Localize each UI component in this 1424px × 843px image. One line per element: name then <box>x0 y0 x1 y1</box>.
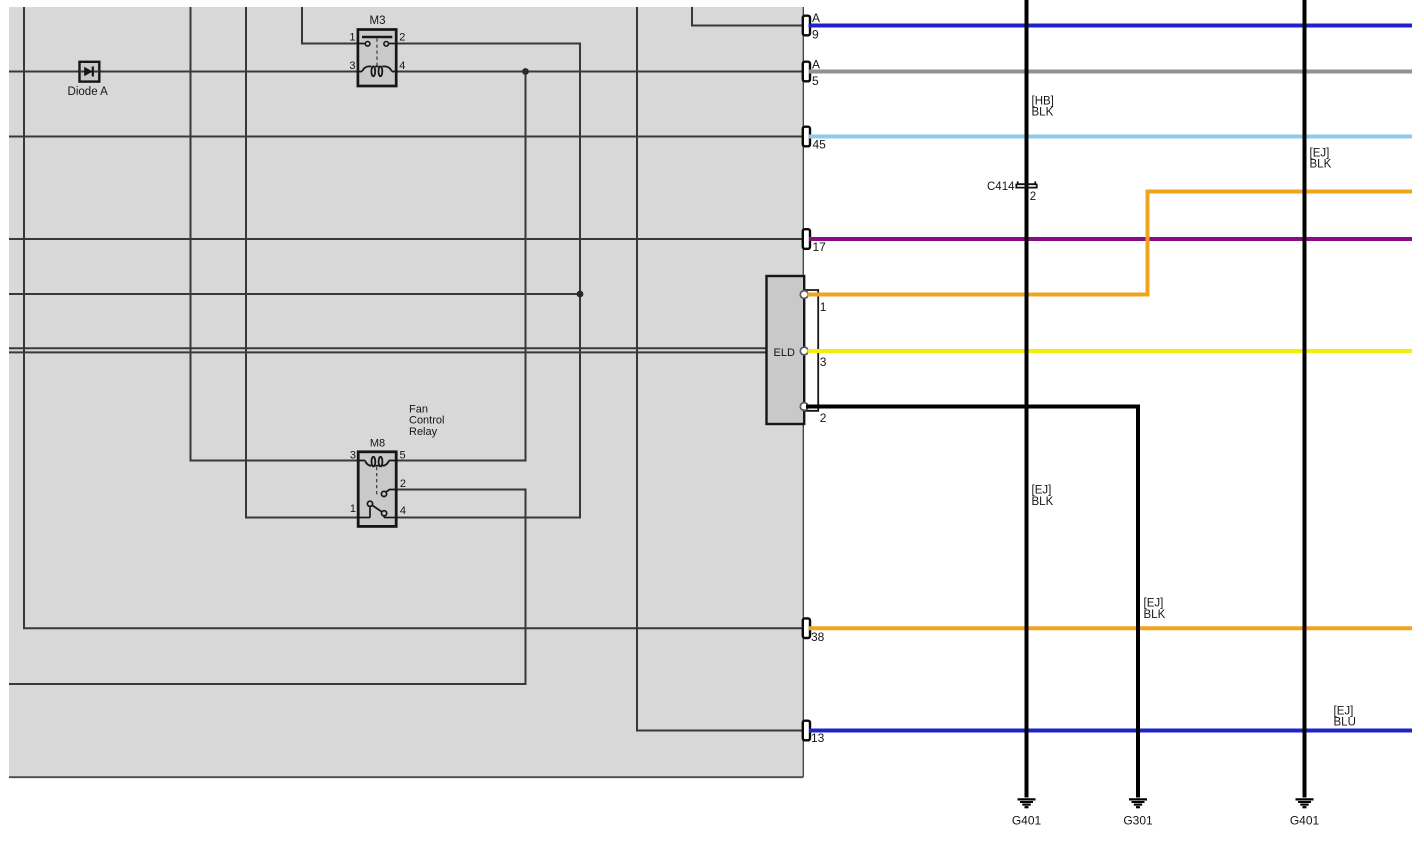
pin 13 label <box>811 731 825 745</box>
diode A box <box>80 62 100 82</box>
junction dot at x525 y71 <box>522 68 529 75</box>
light blue wire pin 45 <box>809 135 1412 139</box>
svg-text:Fan: Fan <box>409 403 428 415</box>
wire vertical bus x24 <box>23 7 25 628</box>
yellow wire ELD pin 3 <box>808 349 1413 353</box>
relay M3 contact circles <box>358 42 396 47</box>
svg-text:ELD: ELD <box>774 347 795 359</box>
svg-text:4: 4 <box>400 505 406 517</box>
relay M8 switch <box>358 490 396 518</box>
svg-text:Relay: Relay <box>409 426 438 438</box>
black wire [EJ] BLK vertical to G401 right <box>1303 0 1307 798</box>
relay M3 dashed link <box>376 39 378 66</box>
wire vertical x246 to M8 pin 1 <box>245 7 247 518</box>
ground G401 right <box>1296 799 1314 807</box>
wire horizontal y683 lower left <box>9 683 527 685</box>
relay M8 coil <box>358 457 396 467</box>
relay M8 pin 5 label <box>400 450 406 462</box>
label [EJ] BLU at x1305 bottom <box>1334 705 1356 728</box>
svg-text:[EJ]: [EJ] <box>1334 705 1354 717</box>
svg-text:38: 38 <box>811 630 825 644</box>
svg-text:[EJ]: [EJ] <box>1310 147 1330 159</box>
ground G401 left <box>1018 799 1036 807</box>
wire M8 pin 5 to x525 <box>396 460 527 462</box>
relay M8 dashed link <box>376 467 378 497</box>
svg-text:4: 4 <box>399 60 405 72</box>
wire horizontal y730 to pin 13 <box>636 730 804 732</box>
wire M3 pin 2 to x580 <box>396 43 581 45</box>
module right border <box>802 7 804 777</box>
svg-text:9: 9 <box>812 27 819 41</box>
relay M3 pin 3 label <box>349 60 355 72</box>
ELD pin 3 label <box>820 355 827 369</box>
label [EJ] BLK at x1305 top <box>1310 147 1332 170</box>
svg-text:3: 3 <box>349 60 355 72</box>
wire vertical x580 from M3 pin 2 to M8 pin 4 <box>579 44 581 518</box>
relay M3 contact bar <box>362 36 392 39</box>
C414 label <box>987 181 1015 193</box>
wire vertical x525 from junction to M8 pin 5 <box>525 72 527 461</box>
ELD terminal ring pin 3 <box>800 347 808 355</box>
black wire ELD pin 2 to G301 <box>806 407 1138 798</box>
relay M8 label <box>370 437 385 449</box>
wire vertical x525 from M8 pin 2 down <box>525 490 527 685</box>
pin 45 label <box>813 138 827 152</box>
pin 38 label <box>811 630 825 644</box>
wire horizontal y352 to ELD <box>9 351 767 353</box>
svg-text:45: 45 <box>813 138 827 152</box>
ELD label <box>774 347 795 359</box>
wire M8 pin 2 to x525 <box>396 489 527 491</box>
relay M3 label <box>370 15 386 27</box>
relay M8 pin 2 label <box>400 478 406 490</box>
svg-text:1: 1 <box>349 32 355 44</box>
wire horizontal y294 to junction <box>9 293 580 295</box>
svg-text:BLU: BLU <box>1334 717 1356 729</box>
wire horizontal y71 through Diode A and M3 to pin 5 <box>9 71 804 73</box>
svg-text:BLK: BLK <box>1032 107 1054 119</box>
connector pin 45 <box>803 127 810 147</box>
svg-text:3: 3 <box>350 450 356 462</box>
wire vertical x190 to M8 pin 3 <box>190 7 192 461</box>
svg-text:[HB]: [HB] <box>1032 95 1054 107</box>
svg-text:BLK: BLK <box>1032 496 1054 508</box>
wire vertical x302 to M3 pin 1 <box>301 7 303 44</box>
label [HB] BLK <box>1032 95 1054 118</box>
inline connector C414 symbol <box>1016 181 1036 187</box>
pin 9 label 9 <box>812 27 819 41</box>
svg-text:G401: G401 <box>1290 813 1320 827</box>
black wire [HB] BLK vertical to G401 <box>1025 0 1029 798</box>
pin 5 label 5 <box>812 74 819 88</box>
ELD terminal ring pin 2 <box>800 403 808 411</box>
relay M3 coil <box>358 66 396 76</box>
wire M8 pin 4 to x580 <box>396 517 581 519</box>
gray wire pin 5 <box>809 70 1412 74</box>
relay M8 pin 1 label <box>350 503 356 515</box>
wire to connector pin 9 <box>691 25 804 27</box>
connector pin 38 <box>803 618 810 638</box>
svg-text:[EJ]: [EJ] <box>1144 598 1164 610</box>
wire horizontal y627 to pin 38 <box>23 627 804 629</box>
svg-text:A: A <box>812 11 820 25</box>
svg-text:3: 3 <box>820 355 827 369</box>
wire horizontal y136 to pin 45 <box>9 136 804 138</box>
svg-text:1: 1 <box>820 300 827 314</box>
orange wire ELD pin 1 with step <box>808 192 1413 295</box>
connector pin 5 <box>803 62 810 82</box>
connector pin 9 <box>803 16 810 36</box>
wire M8 pin 1 lead <box>245 517 358 519</box>
label [EJ] BLK at x1138 <box>1144 598 1166 621</box>
svg-text:BLK: BLK <box>1144 609 1166 621</box>
module background area <box>9 7 803 777</box>
ground G401 right label <box>1290 813 1320 827</box>
fan control relay M8 box <box>358 452 396 527</box>
svg-text:A: A <box>812 57 820 71</box>
ground G401 left label <box>1012 813 1042 827</box>
relay M8 pin 3 label <box>350 450 356 462</box>
ground G301 label <box>1123 813 1153 827</box>
svg-text:G301: G301 <box>1123 813 1153 827</box>
diode A label <box>68 86 109 98</box>
wire vertical x637 to pin 13 <box>636 7 638 731</box>
ELD connector bracket <box>804 290 818 411</box>
wire M3 pin 1 lead <box>301 43 358 45</box>
svg-text:2: 2 <box>820 411 827 425</box>
wire horizontal y348 to ELD <box>9 347 767 349</box>
svg-text:BLK: BLK <box>1310 159 1332 171</box>
svg-text:1: 1 <box>350 503 356 515</box>
relay M3 box <box>358 30 396 87</box>
svg-text:5: 5 <box>400 450 406 462</box>
relay M3 pin 2 label <box>399 32 405 44</box>
svg-text:[EJ]: [EJ] <box>1032 485 1052 497</box>
svg-text:2: 2 <box>1030 191 1036 203</box>
C414 pin 2 label <box>1030 191 1036 203</box>
svg-text:17: 17 <box>813 240 827 254</box>
svg-text:5: 5 <box>812 74 819 88</box>
module bottom border <box>9 776 803 778</box>
wire M8 pin 3 lead <box>190 460 359 462</box>
svg-text:2: 2 <box>399 32 405 44</box>
relay M3 pin 1 label <box>349 32 355 44</box>
label [EJ] BLK at x1026 <box>1032 485 1054 508</box>
ELD terminal ring pin 1 <box>800 291 808 299</box>
svg-text:C414: C414 <box>987 181 1015 193</box>
relay M8 pin 4 label <box>400 505 406 517</box>
fan control relay caption <box>409 403 444 438</box>
ELD pin 2 label <box>820 411 827 425</box>
connector pin 17 <box>803 229 810 249</box>
wire horizontal y239 to pin 17 <box>9 238 804 240</box>
pin 17 label <box>813 240 827 254</box>
pin 9 label A <box>812 11 820 25</box>
junction dot at x580 y294 <box>577 291 584 298</box>
svg-text:M3: M3 <box>370 15 386 27</box>
orange wire pin 38 <box>809 626 1412 630</box>
svg-text:2: 2 <box>400 478 406 490</box>
connector pin 13 <box>803 721 810 741</box>
svg-text:G401: G401 <box>1012 813 1042 827</box>
svg-text:13: 13 <box>811 731 825 745</box>
ELD box <box>767 276 805 424</box>
ELD pin 1 label <box>820 300 827 314</box>
purple wire pin 17 <box>809 237 1412 241</box>
pin 5 label A <box>812 57 820 71</box>
blue wire pin 13 <box>809 729 1412 733</box>
svg-text:Diode A: Diode A <box>68 86 109 98</box>
svg-text:M8: M8 <box>370 437 385 449</box>
ground G301 <box>1129 799 1147 807</box>
blue wire pin 9 <box>809 24 1413 28</box>
relay M3 pin 4 label <box>399 60 405 72</box>
wire vertical x692 to pin 9 <box>691 7 693 26</box>
svg-text:Control: Control <box>409 415 444 427</box>
